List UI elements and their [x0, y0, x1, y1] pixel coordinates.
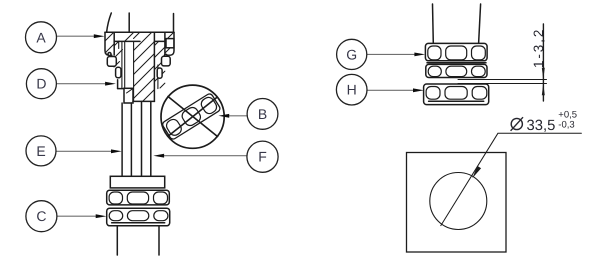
svg-text:1-3,2: 1-3,2 [531, 28, 546, 68]
leader arrowheads [94, 34, 425, 218]
arrow H [413, 88, 424, 92]
flange underside left [114, 40, 140, 42]
svg-text:B: B [258, 106, 267, 122]
svg-text:F: F [258, 149, 267, 165]
diameter leader line [441, 133, 582, 225]
right assembly top tail left [432, 4, 435, 43]
dimension texts [511, 28, 577, 134]
detail circle B [161, 85, 224, 148]
hatch lines right strip [155, 41, 165, 88]
right assembly top tail right [479, 4, 481, 43]
o-ring clip right [162, 56, 171, 66]
nut lower (C assembly) [107, 208, 170, 226]
nut G (top) [425, 43, 487, 60]
flange underside right [154, 40, 165, 42]
tilted nut capsule [161, 93, 221, 141]
wire top tail left [128, 13, 130, 32]
flange right lip [167, 32, 174, 55]
svg-text:E: E [36, 143, 45, 159]
o-ring clip left [107, 57, 116, 67]
balloon C [26, 201, 57, 232]
bore left verticals [118, 41, 120, 48]
dimension arrow up [542, 84, 545, 96]
balloons [26, 22, 368, 232]
cross line 2 [168, 97, 217, 136]
svg-text:C: C [36, 208, 46, 224]
leader D [56, 83, 107, 85]
leader A [57, 35, 95, 37]
svg-text:-0,3: -0,3 [558, 119, 574, 130]
body step left [117, 80, 119, 89]
diameter symbol [511, 117, 523, 131]
seal clip right [157, 68, 162, 78]
nut upper (C assembly) [107, 190, 170, 205]
tube outer left [121, 103, 123, 176]
dimension line vertical [542, 24, 544, 101]
gap dimension extension line upper [458, 79, 547, 81]
arrow F [153, 154, 164, 158]
arrow C [96, 214, 107, 218]
leader lines [56, 36, 416, 216]
balloon B [247, 99, 278, 130]
leader H [367, 89, 415, 91]
ferrule rect [124, 88, 133, 103]
svg-text:A: A [36, 29, 46, 45]
o-ring right [164, 54, 167, 57]
svg-text:33,5: 33,5 [527, 118, 556, 134]
balloon A [26, 22, 57, 53]
nut middle right [426, 64, 487, 77]
dimension arrow down [542, 68, 545, 80]
arrow A [94, 34, 105, 38]
balloon G [337, 39, 367, 69]
tube inner left [130, 103, 132, 176]
leader C [57, 215, 98, 217]
body bottom edge [133, 100, 154, 102]
hatch lines right lip [165, 33, 174, 54]
right lip step rect [166, 39, 174, 48]
balloon D [26, 69, 56, 99]
washer plate [110, 176, 164, 188]
balloon F [247, 141, 278, 172]
gland flange top [105, 31, 174, 33]
leader F [162, 155, 247, 157]
leader G [367, 53, 416, 55]
o-ring left [108, 53, 111, 56]
ferrule hatch [127, 89, 133, 93]
svg-text:H: H [347, 82, 357, 98]
hatch lines body column [134, 33, 155, 102]
arrow E [111, 149, 122, 153]
tube outer right [150, 102, 152, 177]
diameter leader arrow [472, 166, 481, 178]
leader B [228, 115, 247, 117]
arrow B [218, 114, 229, 118]
wire top tail right [173, 14, 175, 33]
hatch lines left strip [114, 33, 133, 67]
hatch lines left lip [105, 33, 114, 54]
balloon E [26, 136, 56, 166]
wire bottom tail left [116, 226, 118, 255]
flange right lip inner edge [164, 32, 166, 55]
mounting plate square [407, 153, 507, 253]
cable break arc [107, 13, 112, 32]
wire bottom tail right [158, 226, 160, 255]
arrow G [414, 53, 425, 57]
flange left lip [105, 32, 112, 55]
tube inner right [141, 102, 143, 177]
hole circle [430, 173, 487, 230]
cross line 1 [168, 97, 218, 137]
arrow D [105, 82, 116, 86]
seal clip left [116, 67, 121, 78]
gap dimension extension line lower [458, 83, 547, 85]
nut H (bottom) [424, 84, 489, 105]
svg-text:G: G [346, 46, 357, 62]
flange left lip inner edge [113, 32, 115, 55]
leader E [56, 150, 113, 152]
joint line right [427, 62, 486, 64]
balloon H [336, 74, 367, 105]
bore right verticals [153, 33, 155, 102]
svg-text:D: D [36, 76, 46, 92]
